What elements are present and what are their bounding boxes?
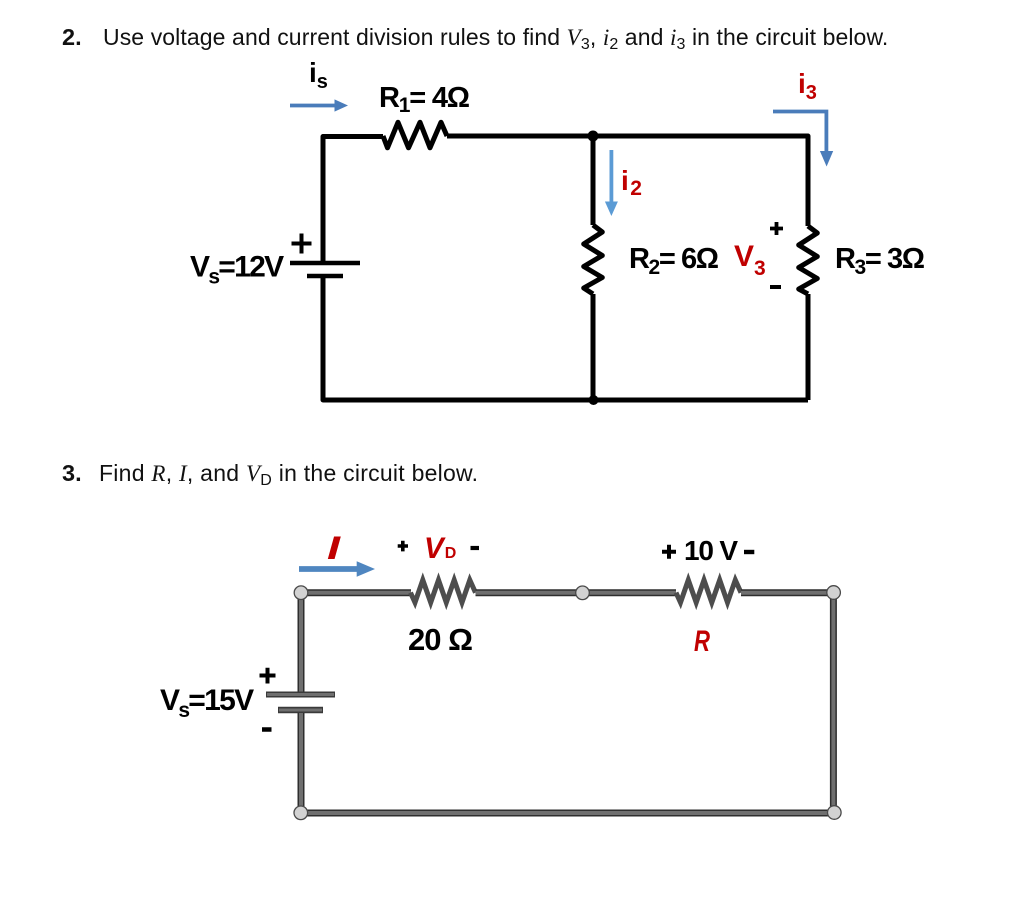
problem 3 heading text (62, 460, 478, 489)
svg-text:Use voltage and current divisi: Use voltage and current division rules t… (103, 24, 888, 53)
current arrow i2 (605, 150, 618, 216)
node top-left circuit 2 (294, 586, 308, 600)
svg-text:is: is (309, 57, 328, 93)
battery Vs=12V long plate (290, 261, 360, 266)
circuit 2 top wire middle segment (476, 589, 677, 596)
svg-text:R1= 4Ω: R1= 4Ω (379, 82, 470, 117)
label + VD - (398, 532, 479, 565)
svg-text:R3= 3Ω: R3= 3Ω (835, 243, 925, 279)
battery Vs=15V minus sign (262, 727, 272, 732)
svg-text:2.: 2. (62, 24, 82, 50)
battery Vs=15V plus sign (260, 668, 276, 684)
node bottom-left circuit 2 (294, 806, 308, 820)
svg-text:VD: VD (424, 532, 456, 565)
current arrow I (299, 561, 375, 577)
svg-text:I: I (327, 530, 342, 566)
node A junction dot (top) (588, 131, 599, 142)
node bottom-right circuit 2 (828, 806, 842, 820)
svg-text:R2= 6Ω: R2= 6Ω (629, 243, 719, 279)
problem 2 heading text (62, 24, 888, 53)
node B junction dot (bottom) (589, 395, 599, 405)
label R (red italic) (694, 625, 710, 658)
label R3 = 3 ohm (835, 243, 925, 279)
resistor R3 (799, 226, 818, 294)
svg-text:Vs=15V: Vs=15V (160, 684, 254, 722)
battery Vs=15V short plate (278, 707, 323, 714)
svg-text:3.: 3. (62, 460, 82, 486)
label Vs=15V (160, 684, 254, 722)
label I (red italic) circuit 2 (327, 530, 342, 566)
circuit 2 bottom wire (301, 810, 835, 817)
resistor R1 (383, 122, 447, 148)
wire from node A to top-right corner (593, 136, 808, 226)
label R2 = 6 ohm (629, 243, 719, 279)
svg-text:Find R, I, and VD in the circu: Find R, I, and VD in the circuit below. (99, 460, 478, 489)
current arrow i_s (290, 99, 348, 111)
circuit 2 left wire lower (298, 713, 305, 813)
label i3 (798, 68, 817, 104)
current arrow i3 (hooked) (773, 112, 833, 167)
battery Vs=15V long plate (266, 692, 335, 698)
circuit 2 right wire (830, 593, 837, 813)
svg-text:R: R (694, 625, 710, 658)
wire from R2 down to node B (591, 294, 596, 400)
plus sign above R3 (770, 222, 783, 235)
bottom wire (323, 278, 808, 400)
label i2 (621, 165, 642, 200)
svg-text:10 V: 10 V (684, 535, 738, 566)
svg-text:V3: V3 (734, 240, 766, 280)
circuit 2 left wire upper (298, 593, 305, 692)
label 20 ohm (408, 622, 472, 657)
node top-middle circuit 2 (576, 586, 590, 600)
label V3 (red) (734, 240, 766, 280)
svg-text:Vs=12V: Vs=12V (190, 251, 284, 289)
wire right side down from R3 to bottom (806, 294, 811, 400)
wire from battery + terminal up and right to R1 (323, 137, 383, 262)
wire from node A down to R2 (591, 136, 596, 225)
svg-text:i3: i3 (798, 68, 817, 104)
circuit 2 top wire right segment (741, 589, 833, 596)
battery Vs=12V short plate (307, 274, 343, 279)
svg-text:i2: i2 (621, 165, 642, 200)
battery Vs=12V plus sign (292, 234, 312, 254)
resistor R (676, 580, 741, 603)
minus sign below R3 (770, 285, 781, 289)
circuit 2 top wire left segment (301, 589, 411, 596)
svg-text:20 Ω: 20 Ω (408, 622, 472, 657)
label i_s (309, 57, 328, 93)
resistor R2 (584, 225, 603, 294)
label R1 = 4 ohm (379, 82, 470, 117)
wire from R1 to node A (447, 134, 593, 139)
label + 10 V - (662, 535, 754, 566)
resistor 20 ohm (411, 580, 476, 603)
node top-right circuit 2 (827, 586, 841, 600)
label Vs=12V (190, 251, 284, 289)
